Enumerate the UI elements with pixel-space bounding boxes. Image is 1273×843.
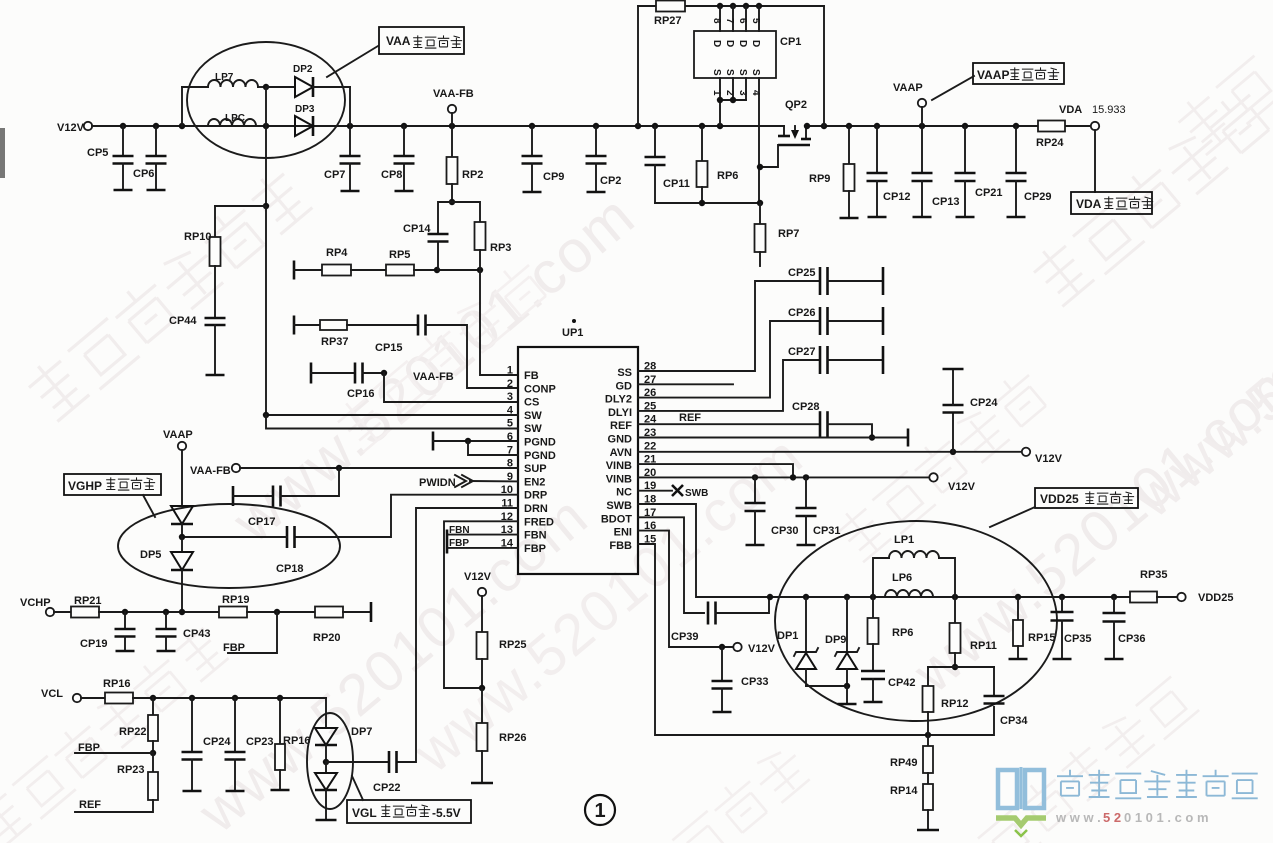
svg-text:CP16: CP16	[347, 388, 375, 400]
capacitor CP31	[805, 477, 807, 508]
drawing sheet number 1	[585, 795, 615, 825]
svg-text:CP12: CP12	[883, 191, 911, 203]
ellipse VAA block outline	[187, 42, 345, 158]
capacitor CP30	[754, 477, 756, 503]
svg-text:CP7: CP7	[324, 169, 345, 181]
svg-text:8: 8	[711, 18, 722, 24]
resistor RP6	[701, 126, 703, 161]
capacitor CP23	[234, 698, 236, 752]
svg-text:QP2: QP2	[785, 99, 807, 111]
wire SUP net	[240, 467, 518, 469]
svg-text:CONP: CONP	[524, 383, 556, 395]
capacitor CP11	[654, 126, 656, 157]
resistor RP15	[1017, 597, 1019, 620]
svg-text:VAA-FB: VAA-FB	[413, 371, 454, 383]
capacitor CP26	[819, 307, 822, 335]
svg-text:V12V: V12V	[948, 481, 976, 493]
svg-text:CP19: CP19	[80, 638, 108, 650]
svg-text:RP20: RP20	[313, 632, 341, 644]
svg-text:V12V: V12V	[748, 643, 776, 655]
svg-text:LPC: LPC	[225, 113, 245, 124]
svg-text:EN2: EN2	[524, 476, 545, 488]
svg-text:VGL: VGL	[352, 806, 377, 820]
capacitor CP21	[964, 126, 966, 173]
wire DP5 to VCHP rail	[181, 570, 183, 612]
wire CP1 source pins	[719, 78, 721, 126]
wire DRN net to CP22	[397, 508, 518, 762]
svg-text:VDD25: VDD25	[1198, 592, 1233, 604]
capacitor CP28	[819, 411, 822, 437]
node CP1 drain dots	[717, 3, 723, 9]
svg-text:7: 7	[724, 18, 735, 24]
capacitor CP5	[122, 126, 124, 156]
svg-text:CP21: CP21	[975, 187, 1003, 199]
terminal V12V (left input)	[84, 122, 92, 130]
svg-text:D: D	[750, 40, 761, 47]
pointer line VDD25 box	[990, 507, 1035, 527]
svg-text:0 1 0 1 . c o m: 0 1 0 1 . c o m	[1124, 810, 1209, 825]
wire RP19 to RP20	[247, 611, 315, 613]
node RP3 bottom	[477, 267, 483, 273]
diode DP9 (zener)	[846, 597, 848, 652]
wire FB feed	[480, 270, 518, 375]
diode DP7 lower	[315, 773, 337, 790]
wire VCL rail	[133, 697, 326, 699]
svg-text:V12V: V12V	[464, 571, 492, 583]
svg-text:V12V: V12V	[57, 122, 85, 134]
svg-text:CP13: CP13	[932, 196, 960, 208]
svg-text:VINB: VINB	[606, 473, 632, 485]
svg-text:CP8: CP8	[381, 169, 402, 181]
svg-text:DP9: DP9	[825, 634, 846, 646]
wire V12V top rail	[92, 125, 784, 127]
left edge scan smudge	[0, 128, 5, 178]
resistor RP23	[152, 753, 154, 772]
svg-text:CP24: CP24	[970, 397, 998, 409]
pointer line VAAP	[932, 76, 974, 100]
capacitor CP18	[286, 526, 289, 548]
svg-text:PGND: PGND	[524, 437, 556, 449]
ground DP7	[325, 790, 327, 820]
label box VDD25 generator	[1035, 488, 1138, 508]
terminal VAAP	[918, 99, 926, 107]
IC UP1 body	[518, 347, 638, 574]
wire VCL to DP7	[325, 698, 327, 728]
capacitor CP39	[707, 602, 710, 625]
svg-text:BDOT: BDOT	[601, 513, 632, 525]
terminal VAA-FB top	[448, 105, 456, 113]
svg-text:CP6: CP6	[133, 168, 154, 180]
svg-text:VDD25: VDD25	[1040, 492, 1079, 506]
label box VDA output	[1071, 192, 1152, 214]
svg-text:CP39: CP39	[671, 631, 699, 643]
svg-text:SW: SW	[524, 410, 542, 422]
svg-text:RP14: RP14	[890, 785, 918, 797]
capacitor CP2	[595, 126, 597, 156]
terminal VDA	[1091, 122, 1099, 130]
svg-text:CP15: CP15	[375, 342, 403, 354]
capacitor CP14	[438, 202, 452, 234]
wire VDA to output box	[1094, 130, 1096, 192]
resistor RP22	[152, 698, 154, 715]
svg-text:RP16: RP16	[103, 678, 131, 690]
wire FRED net	[444, 521, 518, 688]
svg-text:CP24: CP24	[203, 736, 231, 748]
resistor RP24	[1038, 121, 1065, 132]
capacitor CP15	[417, 315, 420, 336]
net stub FBP (VCHP)	[228, 612, 277, 653]
svg-text:LP7: LP7	[215, 72, 234, 83]
wire VAAP down	[181, 450, 183, 506]
capacitor CP25	[819, 267, 822, 295]
svg-text:CP14: CP14	[403, 223, 431, 235]
svg-text:CP29: CP29	[1024, 191, 1052, 203]
svg-text:FRED: FRED	[524, 516, 554, 528]
diode DP5 lower	[171, 552, 193, 570]
resistor RP26	[481, 688, 483, 723]
capacitor CP16	[311, 372, 355, 374]
svg-text:VDA: VDA	[1076, 197, 1102, 211]
capacitor CP19	[124, 612, 126, 629]
capacitor CP29	[1015, 126, 1017, 173]
wire PGND pin7	[468, 441, 518, 455]
svg-text:RP49: RP49	[890, 757, 918, 769]
svg-text:w w w .: w w w .	[1055, 810, 1101, 825]
resistor RP3	[452, 202, 480, 222]
wire RP37 stub bar	[293, 316, 296, 335]
wire FBB pin15 bottom run	[638, 544, 994, 735]
ground PGND stub	[432, 432, 435, 451]
svg-text:CP25: CP25	[788, 267, 816, 279]
resistor RP19	[219, 607, 247, 618]
capacitor CP24 (right)	[952, 413, 954, 452]
svg-text:-5.5V: -5.5V	[432, 806, 461, 820]
svg-text:FBP: FBP	[223, 642, 245, 654]
svg-text:RP19: RP19	[222, 594, 250, 606]
label box VGL generator	[347, 800, 471, 823]
capacitor CP36	[1113, 597, 1115, 613]
wire SW pins net	[266, 206, 518, 415]
node VAA-FB tie	[363, 372, 385, 374]
resistor RP5	[351, 269, 386, 271]
wire SW feed down	[265, 126, 267, 206]
node CP14 bottom	[434, 267, 440, 273]
wire VDD25 rail	[767, 596, 1130, 598]
capacitor CP22	[326, 761, 389, 763]
inductor LP6	[885, 590, 933, 597]
capacitor CP13	[921, 126, 923, 173]
svg-text:VINB: VINB	[606, 460, 632, 472]
wire DLY2 to CP26	[638, 321, 820, 398]
svg-text:REF: REF	[679, 412, 701, 424]
svg-text:NC: NC	[616, 487, 632, 499]
svg-text:S: S	[750, 69, 761, 76]
resistor RP27	[656, 1, 685, 12]
svg-text:CP1: CP1	[780, 36, 801, 48]
svg-text:DRN: DRN	[524, 503, 548, 515]
svg-text:DLYI: DLYI	[608, 407, 632, 419]
svg-text:DP5: DP5	[140, 549, 161, 561]
svg-text:RP6: RP6	[892, 627, 913, 639]
svg-text:CS: CS	[524, 397, 539, 409]
svg-text:DP3: DP3	[295, 104, 315, 115]
resistor RP2	[451, 126, 453, 157]
svg-text:LP6: LP6	[892, 572, 912, 584]
inductor LP1	[873, 558, 889, 597]
svg-text:CP2: CP2	[600, 175, 621, 187]
svg-text:S: S	[711, 69, 722, 76]
diode DP3	[295, 116, 313, 136]
wire DP2 to rail	[349, 87, 351, 126]
svg-text:ENI: ENI	[614, 527, 632, 539]
ellipse VGHP block outline	[118, 504, 340, 588]
wire CP16 stub bar	[310, 363, 313, 384]
resistor RP12	[927, 667, 929, 686]
node RP25/RP26	[479, 685, 485, 691]
wire RP27 top loop	[638, 5, 656, 7]
svg-text:RP21: RP21	[74, 595, 102, 607]
svg-text:CP22: CP22	[373, 782, 401, 794]
resistor RP20	[315, 607, 343, 618]
inductor LP7	[182, 86, 208, 88]
terminal VCHP	[46, 608, 54, 616]
svg-text:22: 22	[644, 440, 656, 452]
svg-text:CP34: CP34	[1000, 715, 1028, 727]
inductor LPC	[208, 119, 256, 126]
svg-text:VAA: VAA	[386, 34, 411, 48]
svg-text:VAA-FB: VAA-FB	[190, 465, 231, 477]
svg-text:RP3: RP3	[490, 242, 511, 254]
pointer line VGHP box	[143, 495, 155, 517]
svg-text:FBP: FBP	[78, 742, 100, 754]
svg-text:5: 5	[750, 18, 761, 24]
svg-text:RP25: RP25	[499, 639, 527, 651]
svg-text:CP42: CP42	[888, 677, 916, 689]
svg-text:CP26: CP26	[788, 307, 816, 319]
wire GND pin23	[638, 437, 908, 439]
svg-text:CP18: CP18	[276, 563, 304, 575]
wire CONP feed	[426, 325, 519, 388]
svg-text:CP28: CP28	[792, 401, 820, 413]
svg-text:RP12: RP12	[941, 698, 969, 710]
svg-text:1: 1	[594, 800, 605, 822]
diode DP1 (zener)	[805, 597, 807, 652]
resistor RP14	[923, 784, 933, 810]
wire RP12/CP34 top node	[928, 666, 994, 668]
capacitor CP35	[1061, 597, 1063, 612]
svg-text:FBP: FBP	[524, 543, 546, 555]
svg-text:VAA-FB: VAA-FB	[433, 88, 474, 100]
diode DP5 upper	[171, 506, 193, 524]
ellipse DP7 outline	[307, 713, 353, 809]
resistor RP9	[848, 126, 850, 164]
svg-text:RP37: RP37	[321, 336, 349, 348]
svg-text:VGHP: VGHP	[68, 479, 102, 493]
svg-text:FBN: FBN	[524, 530, 547, 542]
svg-text:VAAP: VAAP	[977, 68, 1009, 82]
svg-text:GD: GD	[616, 380, 633, 392]
capacitor CP7	[349, 126, 351, 156]
resistor RP25	[481, 596, 483, 632]
resistor RP11	[954, 597, 956, 623]
capacitor CP8	[403, 126, 405, 156]
wire AVN pin22 to V12V	[638, 451, 1022, 453]
svg-text:6: 6	[737, 18, 748, 24]
svg-text:RP23: RP23	[117, 764, 145, 776]
svg-text:RP6: RP6	[717, 170, 738, 182]
resistor RP35	[1130, 592, 1157, 603]
capacitor CP34	[993, 667, 995, 696]
wire VINB pin21 drop	[638, 464, 793, 477]
node DP7 mid	[325, 745, 327, 762]
terminal VDD25	[1177, 593, 1185, 601]
svg-text:CP43: CP43	[183, 628, 211, 640]
svg-text:CP31: CP31	[813, 525, 841, 537]
capacitor CP42	[861, 670, 885, 673]
wire SS to CP25	[638, 281, 820, 371]
wire SWB pin18 to VDD25 node	[638, 504, 767, 597]
label box VAAP output	[973, 63, 1064, 84]
svg-text:RP35: RP35	[1140, 569, 1168, 581]
svg-text:DLY2: DLY2	[605, 394, 632, 406]
capacitor CP43	[165, 612, 167, 629]
terminal VCL	[73, 694, 81, 702]
svg-text:GND: GND	[608, 434, 633, 446]
svg-text:S: S	[724, 69, 735, 76]
svg-text:RP11: RP11	[970, 640, 997, 652]
svg-text:DRP: DRP	[524, 490, 547, 502]
IC CP1 package	[694, 31, 776, 78]
svg-text:FBB: FBB	[609, 540, 632, 552]
svg-text:RP15: RP15	[1028, 632, 1056, 644]
svg-text:CP17: CP17	[248, 516, 276, 528]
svg-text:RP7: RP7	[778, 228, 799, 240]
svg-text:RP24: RP24	[1036, 137, 1064, 149]
wire CP1 pin4 to QP2 gate	[758, 78, 760, 203]
svg-text:VCL: VCL	[41, 688, 63, 700]
svg-text:RP27: RP27	[654, 15, 682, 27]
node rail junction dots	[120, 123, 126, 129]
svg-text:VCHP: VCHP	[20, 597, 51, 609]
svg-text:SS: SS	[617, 367, 632, 379]
wire BDOT pin17 to CP39	[638, 517, 704, 613]
terminal V12V (RP25)	[478, 588, 486, 596]
svg-text:5 2: 5 2	[1103, 810, 1121, 825]
svg-text:AVN: AVN	[610, 447, 632, 459]
svg-text:CP9: CP9	[543, 171, 564, 183]
svg-text:CP33: CP33	[741, 676, 769, 688]
wire QP2 gate	[760, 145, 778, 167]
resistor RP10	[210, 237, 221, 266]
diode DP2	[266, 86, 295, 88]
svg-text:CP11: CP11	[663, 178, 690, 190]
svg-text:SWB: SWB	[685, 488, 708, 499]
svg-text:VAAP: VAAP	[163, 429, 193, 441]
diode DP7 upper	[315, 728, 337, 745]
wire RP10 branch	[215, 205, 266, 207]
svg-text:RP16: RP16	[283, 735, 311, 747]
svg-text:D: D	[737, 40, 748, 47]
svg-text:RP26: RP26	[499, 732, 527, 744]
capacitor CP6	[155, 126, 157, 156]
capacitor CP12	[876, 126, 878, 173]
svg-text:RP2: RP2	[462, 169, 483, 181]
resistor RP16 (shunt)	[279, 698, 281, 744]
svg-text:RP5: RP5	[389, 249, 410, 261]
resistor RP21	[54, 611, 71, 613]
svg-text:LP1: LP1	[894, 534, 914, 546]
svg-text:VDA: VDA	[1059, 104, 1082, 116]
svg-text:CP35: CP35	[1064, 633, 1092, 645]
svg-text:CP23: CP23	[246, 736, 274, 748]
wire NC pin19 with SWB cross	[638, 490, 672, 492]
wire VCHP rail	[99, 611, 219, 613]
watermark logo site name	[1057, 770, 1258, 799]
node LP7/LPC junction	[263, 84, 269, 90]
svg-text:SW: SW	[524, 423, 542, 435]
wire RP4 net stub bar	[293, 261, 296, 280]
svg-text:RP22: RP22	[119, 726, 147, 738]
svg-text:CP44: CP44	[169, 315, 197, 327]
svg-text:CP5: CP5	[87, 147, 108, 159]
capacitor CP9	[531, 126, 533, 156]
svg-text:SWB: SWB	[606, 500, 632, 512]
resistor RP4	[294, 269, 322, 271]
resistor RP7	[759, 203, 761, 224]
svg-text:1: 1	[507, 365, 513, 377]
watermark logo book icon	[998, 767, 1044, 809]
svg-text:CP30: CP30	[771, 525, 799, 537]
svg-text:REF: REF	[79, 799, 101, 811]
svg-text:RP10: RP10	[184, 231, 212, 243]
wire ENI pin16 to V12V	[638, 531, 733, 647]
svg-text:CP36: CP36	[1118, 633, 1146, 645]
wire VINB pin20 to V12V	[638, 476, 929, 478]
capacitor CP24 (VCL)	[191, 698, 193, 752]
wire DRP net to CP18	[296, 495, 518, 537]
capacitor CP44	[214, 266, 216, 318]
pointer line VGL box	[352, 776, 363, 800]
wire DP1/DP9 tie to ground	[806, 685, 847, 687]
terminal VAAP (VGHP)	[178, 442, 186, 450]
label box VAA generator	[379, 27, 464, 54]
resistor RP6 (VDD25)	[872, 597, 874, 618]
svg-text:3: 3	[507, 391, 513, 403]
svg-text:CP27: CP27	[788, 346, 816, 358]
svg-text:RP4: RP4	[326, 247, 348, 259]
ellipse VDD25 block outline	[775, 521, 1057, 721]
wire CP11/RP6/RP7 bottom tie	[655, 202, 760, 204]
svg-text:DP1: DP1	[777, 630, 798, 642]
wire REF pin24 with CP28	[638, 423, 820, 425]
svg-text:2: 2	[507, 378, 513, 390]
svg-text:S: S	[737, 69, 748, 76]
capacitor CP33	[721, 647, 723, 681]
svg-text:PGND: PGND	[524, 450, 556, 462]
net stub FBN	[446, 530, 449, 554]
terminal VAA-FB (SUP)	[232, 464, 240, 472]
svg-text:D: D	[724, 40, 735, 47]
net stub FBP (VCL)	[75, 752, 153, 754]
capacitor CP17	[232, 486, 235, 506]
resistor RP49	[927, 735, 929, 746]
resistor RP37	[294, 324, 320, 326]
wire CS feed	[384, 373, 518, 402]
resistor RP16 (series)	[81, 697, 105, 699]
svg-text:VAAP: VAAP	[893, 82, 923, 94]
svg-text:RP9: RP9	[809, 173, 830, 185]
svg-text:FB: FB	[524, 370, 539, 382]
